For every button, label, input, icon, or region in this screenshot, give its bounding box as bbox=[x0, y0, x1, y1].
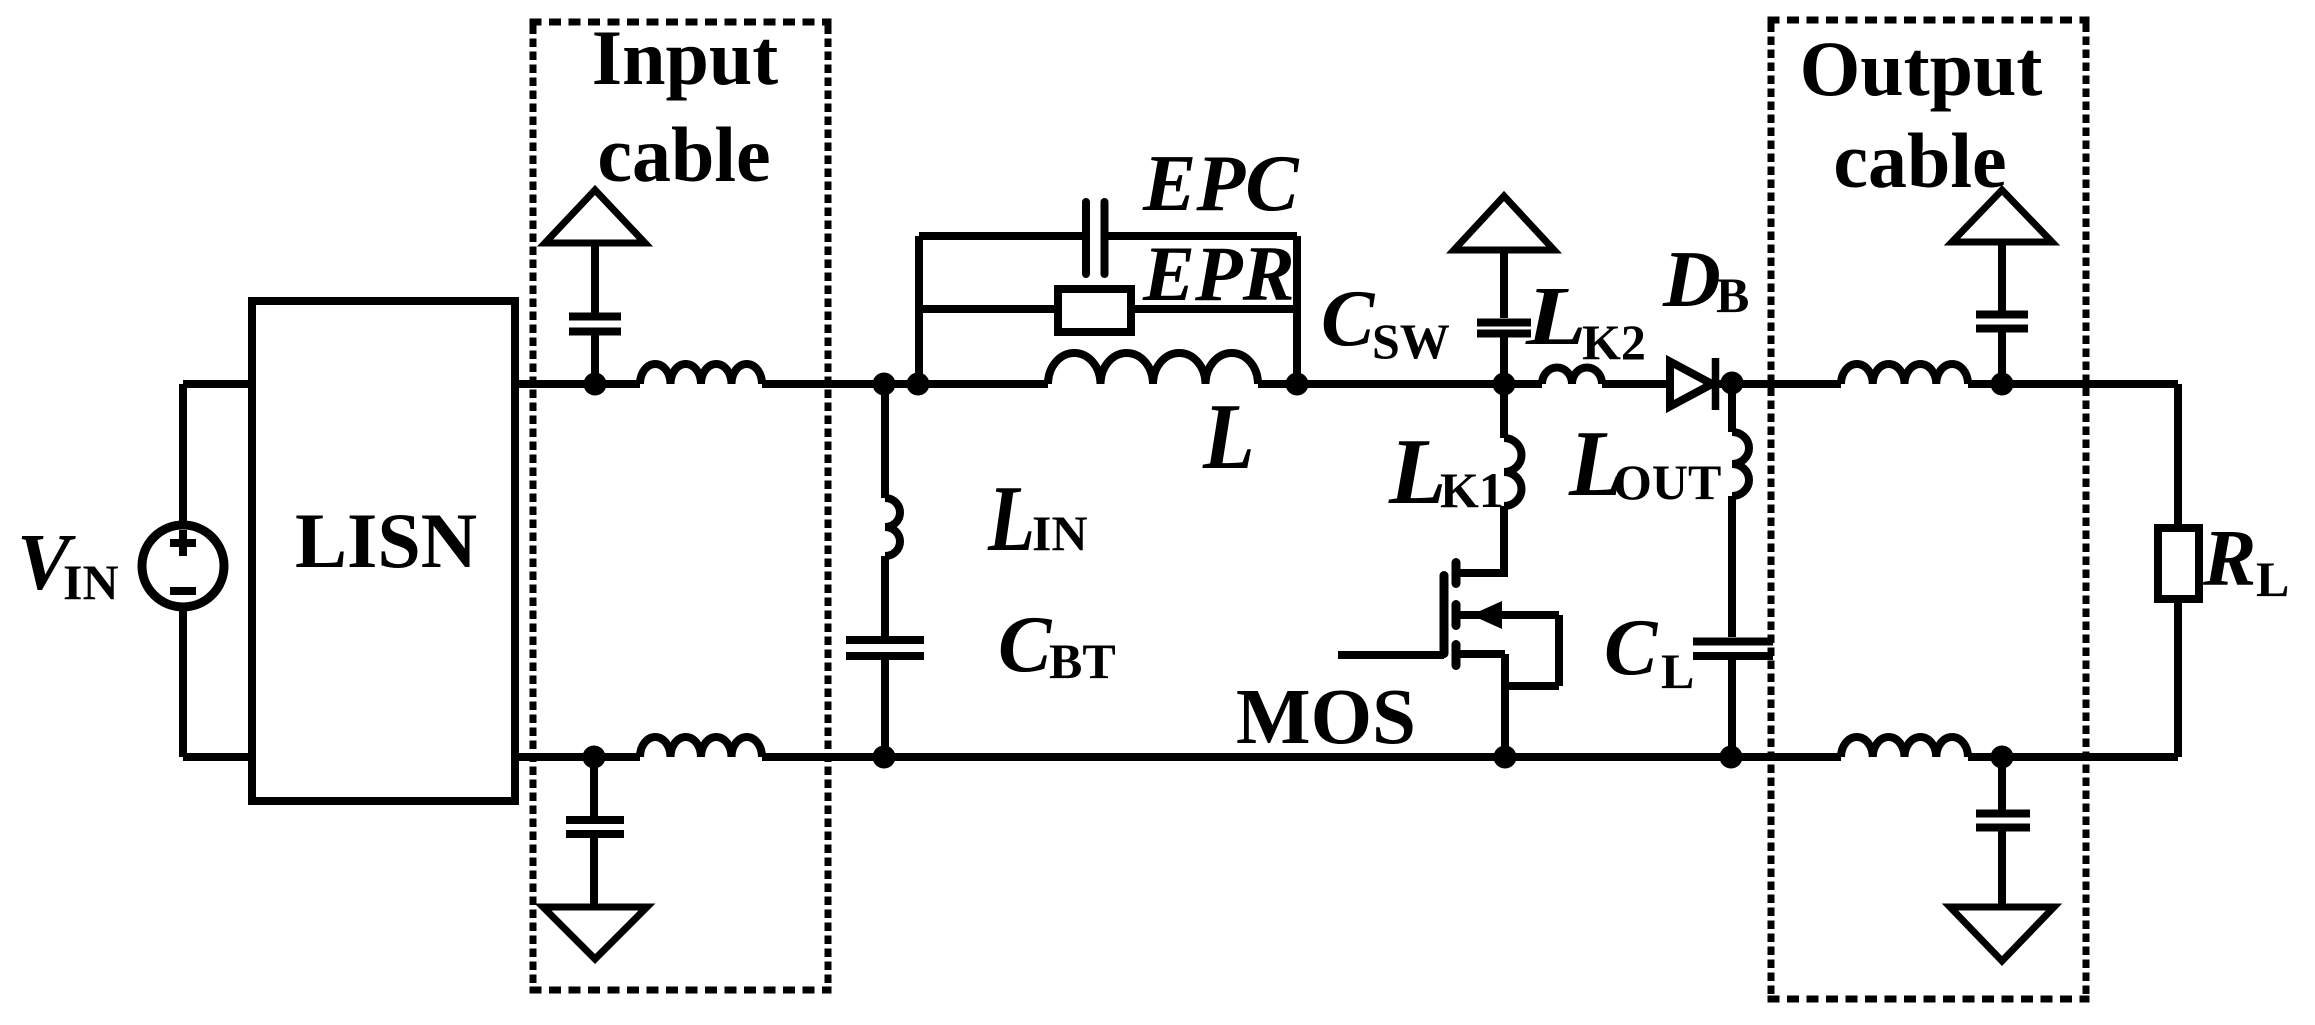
label Input cable bbox=[592, 14, 778, 198]
capacitor input cable top bbox=[569, 317, 621, 332]
svg-text:EPR: EPR bbox=[1142, 230, 1295, 317]
capacitor output cable top bbox=[1976, 315, 2028, 329]
svg-text:L: L bbox=[1388, 420, 1446, 524]
svg-text:cable: cable bbox=[597, 111, 770, 198]
wire R_L to bottom bus bbox=[2174, 599, 2182, 757]
label Output cable bbox=[1800, 25, 2043, 204]
label L_K1 bbox=[1388, 420, 1504, 524]
wire VIN to LISN top bbox=[183, 380, 252, 388]
wire L to node C bbox=[1258, 380, 1297, 388]
wire antenna to cap bbox=[591, 243, 599, 313]
svg-text:Output: Output bbox=[1800, 25, 2043, 112]
wire top bus to node A bbox=[762, 380, 1048, 388]
svg-text:EPC: EPC bbox=[1142, 140, 1300, 228]
label D_B bbox=[1662, 236, 1749, 324]
node A (C_BT branch) bbox=[873, 373, 896, 396]
inductor L_IN bbox=[885, 498, 900, 556]
wire top bus to right corner bbox=[1968, 380, 2178, 388]
capacitor C_L bbox=[1693, 642, 1773, 657]
svg-text:MOS: MOS bbox=[1236, 674, 1416, 761]
wire cap to bus bbox=[591, 335, 599, 384]
antenna C_SW bbox=[1454, 196, 1554, 250]
svg-text:SW: SW bbox=[1372, 313, 1450, 369]
wire bottom bus right bbox=[1968, 753, 2178, 761]
label R_L bbox=[2202, 515, 2289, 607]
antenna input cable bbox=[545, 190, 645, 243]
label L_OUT bbox=[1568, 411, 1721, 516]
inductor output cable top bbox=[1841, 364, 1968, 384]
svg-text:cable: cable bbox=[1833, 117, 2006, 204]
antenna output cable bbox=[1952, 190, 2052, 242]
wire L_IN to C_BT bbox=[881, 556, 889, 636]
svg-text:C: C bbox=[998, 601, 1053, 689]
svg-text:K1: K1 bbox=[1440, 462, 1504, 518]
capacitor C_SW bbox=[1477, 323, 1531, 334]
label VIN bbox=[17, 519, 119, 610]
wire bottom bus middle bbox=[762, 753, 1841, 761]
svg-text:B: B bbox=[1716, 267, 1749, 323]
wire L_K1 to MOS drain bbox=[1459, 506, 1504, 573]
svg-text:LISN: LISN bbox=[295, 497, 477, 584]
wire L_OUT to C_L bbox=[1728, 496, 1736, 637]
svg-text:L: L bbox=[1202, 385, 1255, 489]
wire VIN top stem bbox=[179, 384, 187, 521]
ground output cable bbox=[1950, 907, 2054, 961]
wire cap to bus output bbox=[1998, 332, 2006, 384]
LISN box bbox=[252, 301, 515, 801]
node output top bbox=[1991, 373, 2014, 396]
resistor EPR bbox=[1058, 289, 1131, 332]
wire diode to node E bbox=[1717, 380, 1841, 388]
inductor L_OUT bbox=[1732, 432, 1749, 496]
inductor input cable bottom bbox=[640, 737, 762, 757]
output cable dashed box bbox=[1768, 20, 2090, 999]
label L bbox=[1202, 385, 1255, 489]
label C_SW bbox=[1321, 275, 1450, 369]
node D (switch node) bbox=[1493, 373, 1516, 396]
label L_K2 bbox=[1525, 269, 1646, 370]
wire bottom bus LISN to inductor bbox=[515, 753, 640, 761]
node B (EPC branch) bbox=[907, 373, 930, 396]
inductor L_K2 bbox=[1542, 368, 1602, 385]
node C_BT bottom bbox=[873, 746, 896, 769]
wire L_OUT branch top bbox=[1728, 384, 1736, 432]
svg-text:C: C bbox=[1604, 604, 1659, 692]
svg-text:L: L bbox=[2256, 551, 2289, 607]
node C (EPC right) bbox=[1286, 373, 1309, 396]
svg-text:BT: BT bbox=[1049, 633, 1116, 689]
input cable dashed box bbox=[530, 22, 832, 990]
label C_BT bbox=[998, 601, 1116, 689]
node MOS source bbox=[1494, 746, 1517, 769]
inductor L bbox=[1048, 353, 1258, 384]
wire C_L to bottom bus bbox=[1728, 660, 1736, 757]
EPC branch right vertical bbox=[1293, 236, 1301, 384]
label C_L bbox=[1604, 604, 1694, 699]
wire L_IN branch top bbox=[881, 384, 889, 498]
wire VIN to LISN bottom bbox=[183, 753, 252, 761]
capacitor EPC bbox=[1086, 202, 1105, 274]
node C_L bottom bbox=[1720, 746, 1743, 769]
svg-text:K2: K2 bbox=[1582, 314, 1646, 370]
svg-text:R: R bbox=[2202, 515, 2256, 603]
svg-text:OUT: OUT bbox=[1613, 454, 1721, 510]
wire antenna to C_SW bbox=[1500, 250, 1508, 318]
wire cap to ground input bbox=[590, 838, 598, 907]
diode D_B bbox=[1670, 358, 1716, 410]
wire L_K1 branch bbox=[1500, 384, 1508, 438]
wire EPR middle line bbox=[919, 305, 1297, 313]
wire top bus LISN to inductor bbox=[515, 380, 640, 388]
voltage source V1 bbox=[142, 525, 224, 607]
svg-text:IN: IN bbox=[1032, 505, 1088, 561]
svg-text:L: L bbox=[1661, 643, 1694, 699]
wire EPC top line bbox=[919, 232, 1297, 240]
resistor R_L bbox=[2158, 528, 2199, 599]
wire node C to node D bbox=[1297, 380, 1542, 388]
svg-text:Input: Input bbox=[592, 14, 778, 101]
inductor input cable top bbox=[640, 364, 762, 384]
node output bottom bbox=[1991, 746, 2014, 769]
wire L_K2 to diode bbox=[1602, 380, 1666, 388]
wire C_SW to bus bbox=[1500, 337, 1508, 384]
wire antenna to cap output bbox=[1998, 242, 2006, 311]
svg-text:L: L bbox=[1525, 269, 1587, 362]
svg-text:L: L bbox=[987, 466, 1035, 571]
node input bottom bbox=[583, 746, 606, 769]
inductor output cable bottom bbox=[1841, 737, 1968, 757]
wire C_BT to bottom bus bbox=[881, 660, 889, 757]
node E (diode cathode) bbox=[1721, 372, 1744, 395]
wire input bottom node to cap bbox=[590, 757, 598, 816]
svg-text:C: C bbox=[1321, 275, 1376, 363]
label L_IN bbox=[987, 466, 1087, 571]
transistor MOS bbox=[1338, 563, 1559, 758]
wire output bottom node to cap bbox=[1998, 757, 2006, 810]
EPC branch left vertical bbox=[915, 236, 923, 384]
wire VIN bottom stem bbox=[179, 611, 187, 757]
ground input cable bbox=[543, 907, 647, 959]
wire right corner down to R_L bbox=[2174, 384, 2182, 528]
capacitor output cable bottom bbox=[1976, 814, 2030, 828]
wire cap to ground output bbox=[1998, 831, 2006, 907]
node input top bbox=[584, 373, 607, 396]
capacitor input cable bottom bbox=[566, 820, 624, 834]
svg-text:IN: IN bbox=[63, 554, 119, 610]
svg-text:D: D bbox=[1662, 236, 1721, 324]
capacitor C_BT bbox=[846, 640, 924, 656]
inductor L_K1 bbox=[1504, 438, 1522, 506]
